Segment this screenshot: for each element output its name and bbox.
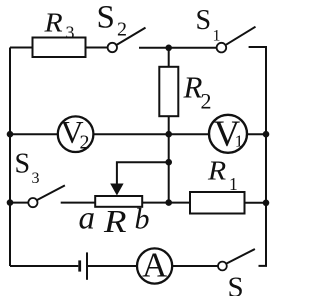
junction node right-V1 [263,131,270,138]
junction node left-V2 [7,131,14,138]
wire A to S [172,265,218,267]
svg-text:S: S [15,149,31,180]
wire V2 to V1 [93,133,209,135]
svg-text:A: A [142,246,168,285]
svg-text:a: a [79,201,96,237]
svg-text:b: b [135,203,150,236]
wire S3 to rheostat [61,202,95,204]
svg-text:S: S [228,272,244,296]
rheostat R [95,196,142,207]
wire S2 to S1 [139,47,217,49]
svg-text:1: 1 [229,174,238,194]
wire R1 to right [245,202,267,204]
wire top-right corner and right vertical [249,47,266,266]
switch S2 [108,28,146,53]
svg-text:2: 2 [80,132,90,154]
battery [80,252,87,279]
svg-text:R: R [103,204,127,239]
resistor R2 [159,67,178,116]
voltmeter V1 [209,115,247,153]
switch S1 [217,27,256,53]
wire R2 bottom lead [168,116,170,135]
svg-text:3: 3 [32,170,40,187]
wire R2 top lead [168,48,170,68]
wire mid-left [10,133,58,135]
wire bottom-left [10,265,78,267]
svg-text:R: R [183,70,203,105]
ammeter A [137,248,172,283]
wire V1 to right [247,133,266,135]
resistor R3 [33,38,86,58]
svg-text:2: 2 [201,89,212,114]
svg-text:S: S [97,0,115,36]
svg-text:3: 3 [66,23,75,43]
wire center vertical [168,134,170,202]
wire top-left lead [10,47,33,49]
junction node right-R1 [263,200,270,207]
svg-text:1: 1 [235,132,244,151]
junction node wiper [165,159,172,166]
junction node left-S3 [7,199,14,206]
junction node mid-R2 [165,131,172,138]
svg-text:R: R [43,9,62,38]
svg-text:S: S [196,5,212,36]
svg-text:1: 1 [213,28,221,45]
svg-text:R: R [207,157,226,186]
wire rheostat to R1 [142,202,190,204]
switch S3 [28,185,65,207]
wire R3 to S2 [86,47,108,49]
svg-text:2: 2 [117,19,127,41]
wire wiper branch [117,162,169,185]
wire left vertical [9,48,11,267]
resistor R1 [190,192,245,214]
junction node rheostat-R1 [165,199,172,206]
switch S [218,249,255,270]
voltmeter V2 [58,116,94,152]
wiper arrowhead [110,184,123,196]
wire S3 lead [10,202,28,204]
wire battery to A [88,265,137,267]
junction node top-R2 [165,45,172,52]
